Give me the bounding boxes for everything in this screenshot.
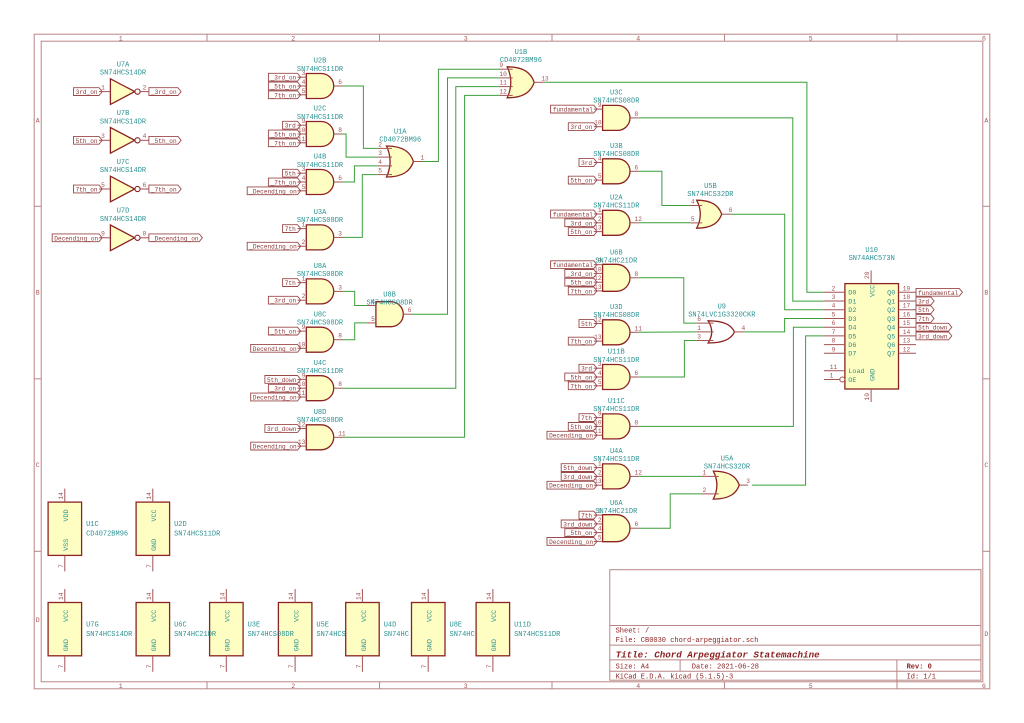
global label fundamental	[551, 261, 597, 269]
global label _5th_on	[268, 82, 300, 90]
U8C output pin 8	[334, 333, 343, 340]
svg-text:SN74HCS11DR: SN74HCS11DR	[593, 456, 640, 464]
svg-text:7th_on: 7th_on	[570, 383, 592, 390]
wire U1B out to U10 D0	[543, 82, 824, 292]
svg-text:U8D: U8D	[314, 409, 327, 417]
svg-text:20: 20	[864, 271, 871, 279]
svg-text:14: 14	[146, 492, 153, 500]
global label _5th_on	[565, 373, 597, 381]
svg-text:B: B	[36, 290, 40, 297]
U5B input pin 4	[690, 199, 702, 206]
U2B input pin 4	[298, 79, 307, 86]
U5A reference label	[721, 455, 734, 463]
svg-text:CD4072BM96: CD4072BM96	[379, 136, 421, 144]
svg-text:11: 11	[499, 80, 507, 87]
svg-text:16: 16	[903, 312, 911, 319]
U2B input pin 3	[298, 70, 307, 77]
svg-text:U9: U9	[718, 303, 726, 311]
svg-text:fundamental: fundamental	[553, 212, 594, 219]
U11B input pin 5	[594, 379, 603, 386]
svg-text:SN74HCS11DR: SN74HCS11DR	[297, 162, 344, 170]
wire U3B out to U5B pin4	[639, 171, 691, 205]
global label 5th_on	[568, 176, 597, 184]
svg-text:C: C	[984, 462, 988, 469]
svg-text:GND: GND	[869, 369, 877, 381]
wire U3C out to U10 D1	[639, 118, 824, 301]
svg-text:8: 8	[635, 111, 639, 118]
U7A input pin 1	[99, 84, 110, 91]
wire U3A out to U1A pin5	[343, 175, 378, 238]
U5B input pin 5	[690, 216, 702, 223]
svg-text:SN74HCS11DR: SN74HCS11DR	[593, 406, 640, 414]
svg-text:U3E: U3E	[248, 622, 261, 630]
svg-text:5: 5	[302, 184, 306, 191]
global label _5th_on	[149, 136, 181, 144]
U9 input pin 6	[697, 316, 714, 323]
U6B input pin 13	[594, 284, 603, 291]
svg-text:1: 1	[697, 325, 701, 332]
power unit U11D body	[476, 603, 510, 656]
U8D input pin 13	[298, 439, 307, 446]
svg-text:5: 5	[598, 534, 602, 541]
U9 value label SN74LVC1G3320CKR	[688, 311, 756, 319]
global label _3rd_on	[268, 296, 300, 304]
svg-text:SN74HCS08DR: SN74HCS08DR	[297, 217, 344, 225]
svg-text:11: 11	[594, 428, 602, 435]
svg-text:C: C	[36, 462, 40, 469]
U10 pin 1 OE (inverted)	[824, 373, 857, 386]
U4C input pin 9	[298, 372, 307, 379]
U2C input pin 11	[298, 136, 307, 143]
svg-text:5th_on: 5th_on	[570, 178, 592, 185]
svg-text:4: 4	[691, 199, 695, 206]
gate U4A body	[603, 464, 630, 489]
svg-text:D4: D4	[848, 325, 856, 333]
svg-text:U7A: U7A	[117, 62, 130, 70]
U6A value label SN74HC21DR	[595, 508, 638, 516]
U8B output pin 6	[403, 307, 412, 314]
svg-text:5th: 5th	[285, 171, 296, 178]
svg-text:Decending_on: Decending_on	[54, 235, 98, 242]
svg-text:VCC: VCC	[151, 509, 159, 521]
U4C value label SN74HCS11DR	[297, 368, 344, 376]
svg-text:CD4072BM96: CD4072BM96	[500, 57, 542, 65]
U1C reference label	[86, 521, 99, 529]
inverter U7D body	[110, 225, 140, 251]
svg-text:10: 10	[298, 341, 306, 348]
U2A output pin 12	[630, 216, 642, 223]
svg-text:3rd: 3rd	[581, 366, 592, 373]
svg-text:10: 10	[864, 393, 871, 401]
U1C power pin 7 VSS	[58, 539, 71, 572]
svg-text:Decending_on: Decending_on	[253, 346, 297, 353]
global label 7th_on	[568, 337, 597, 345]
svg-text:_7th_on: _7th_on	[270, 140, 297, 147]
global label 5th_down	[916, 323, 952, 331]
svg-text:1: 1	[119, 683, 123, 690]
title block	[610, 570, 981, 682]
latch U10 body	[845, 284, 899, 389]
U8E value label SN74HC	[450, 631, 475, 639]
svg-text:U8C: U8C	[314, 311, 327, 319]
svg-text:SN74HC21DR: SN74HC21DR	[174, 631, 217, 639]
svg-text:File: CB0030 chord-arpeggiator: File: CB0030 chord-arpeggiator.sch	[616, 637, 759, 645]
svg-text:Decending_on: Decending_on	[253, 395, 297, 402]
U8A input pin 1	[298, 276, 307, 283]
U3E power pin 7 GND	[219, 639, 232, 672]
wire U8B out to U1B pin10	[412, 78, 499, 314]
U9 input pin 3	[697, 334, 714, 341]
svg-text:3: 3	[832, 294, 836, 301]
U9 reference label	[718, 303, 726, 311]
svg-text:Size: A4: Size: A4	[616, 663, 650, 671]
U2D reference label	[174, 521, 187, 529]
global label _7th_on	[149, 185, 181, 193]
svg-text:D: D	[984, 631, 988, 638]
U1A input pin 2	[378, 141, 392, 148]
U4A value label SN74HCS11DR	[593, 456, 640, 464]
U1A input pin 5	[378, 168, 392, 175]
U3B input pin 4	[594, 156, 603, 163]
svg-text:SN74HC21DR: SN74HC21DR	[595, 508, 638, 516]
svg-text:13: 13	[594, 478, 602, 485]
global label 7th	[283, 279, 301, 287]
global label _7th_on	[268, 91, 300, 99]
svg-text:SN74HCS14DR: SN74HCS14DR	[100, 216, 147, 224]
U10 pin 9 D7	[824, 346, 857, 358]
U4A input pin 13	[594, 478, 603, 485]
svg-text:4: 4	[832, 303, 836, 310]
U5B reference label	[704, 183, 717, 191]
svg-text:VCC: VCC	[63, 610, 71, 622]
U4D reference label	[384, 622, 397, 630]
svg-text:14: 14	[355, 592, 362, 600]
global label 3rd_down	[561, 520, 597, 528]
global label _7th_on	[268, 139, 300, 147]
gate U8B body	[376, 302, 403, 327]
svg-text:2: 2	[302, 293, 306, 300]
svg-text:_Decending_on: _Decending_on	[248, 188, 297, 195]
svg-text:7: 7	[58, 664, 65, 668]
U6A input pin 5	[594, 534, 603, 541]
U11C input pin 11	[594, 428, 603, 435]
U8A value label SN74HCS08DR	[297, 271, 344, 279]
svg-text:18: 18	[903, 294, 911, 301]
U8D input pin 12	[298, 422, 307, 429]
svg-text:8: 8	[143, 231, 147, 238]
svg-text:GND: GND	[491, 639, 499, 651]
U5A input pin 2	[702, 487, 719, 494]
U1A output pin 1	[414, 155, 425, 162]
svg-text:Q4: Q4	[887, 325, 895, 333]
U8D reference label	[314, 409, 327, 417]
U8C reference label	[314, 311, 327, 319]
svg-text:U11C: U11C	[608, 398, 625, 406]
svg-text:U1B: U1B	[515, 49, 528, 57]
global label 5th_on	[568, 228, 597, 236]
svg-text:SN74HCS11DR: SN74HCS11DR	[297, 114, 344, 122]
svg-text:U2A: U2A	[610, 195, 623, 203]
svg-text:8: 8	[635, 419, 639, 426]
svg-text:_3rd_on: _3rd_on	[566, 271, 593, 278]
wire U4A out to U5A pin1	[639, 475, 702, 477]
U7C value label SN74HCS14DR	[100, 167, 147, 175]
gate U11C body	[603, 414, 630, 439]
svg-text:_5th_on: _5th_on	[270, 132, 297, 139]
power unit U8E body	[412, 603, 446, 656]
svg-text:KiCad E.D.A. kicad (5.1.5)-3: KiCad E.D.A. kicad (5.1.5)-3	[616, 674, 734, 682]
svg-text:6: 6	[635, 370, 639, 377]
power unit U4D body	[346, 603, 380, 656]
svg-text:U6B: U6B	[610, 250, 623, 258]
global label 7th_on	[74, 185, 103, 193]
svg-text:U3C: U3C	[610, 90, 623, 98]
svg-text:12: 12	[635, 216, 643, 223]
U7G reference label	[86, 622, 99, 630]
power unit U1C body	[48, 502, 82, 555]
svg-text:SN74HC21DR: SN74HC21DR	[595, 258, 638, 266]
svg-text:SN74HCS32DR: SN74HCS32DR	[704, 464, 751, 472]
svg-text:GND: GND	[63, 639, 71, 651]
svg-text:U6A: U6A	[610, 500, 623, 508]
svg-text:14: 14	[903, 329, 911, 336]
svg-text:5th_down: 5th_down	[563, 465, 593, 472]
svg-text:5th_down: 5th_down	[918, 325, 948, 332]
svg-text:U5A: U5A	[721, 455, 734, 463]
svg-text:7: 7	[486, 664, 493, 668]
U8C input pin 10	[298, 341, 307, 348]
wire U8A out to U8B pin4	[343, 291, 368, 305]
global label 5th_down	[265, 376, 301, 384]
svg-text:SN74HCS08DR: SN74HCS08DR	[593, 151, 640, 159]
U7C input pin 5	[99, 182, 110, 189]
U4C output pin 8	[334, 381, 343, 388]
svg-text:2: 2	[291, 36, 295, 43]
U5A output pin 3	[739, 478, 750, 485]
U4B input pin 4	[298, 175, 307, 182]
U10 value label SN74AHC573N	[849, 255, 895, 263]
svg-text:6: 6	[982, 36, 986, 43]
power unit U2D body	[136, 502, 170, 555]
svg-text:8: 8	[338, 333, 342, 340]
U3E value label SN74HCS08DR	[248, 631, 295, 639]
svg-text:_5th_on: _5th_on	[270, 84, 297, 91]
U5E reference label	[316, 622, 329, 630]
svg-text:5: 5	[371, 316, 375, 323]
wire U11B out to U9 pin3	[639, 341, 697, 378]
svg-text:8: 8	[338, 127, 342, 134]
U7A reference label	[117, 62, 130, 70]
U11D power pin 14 VCC	[486, 589, 499, 622]
gate U9 body	[708, 321, 734, 343]
global label 3rd_on	[74, 88, 103, 96]
svg-text:SN74HCS32DR: SN74HCS32DR	[687, 191, 734, 199]
U10 pin 13 Q6	[887, 338, 916, 350]
U4B value label SN74HCS11DR	[297, 162, 344, 170]
svg-text:U6C: U6C	[174, 622, 187, 630]
U4C input pin 10	[298, 381, 307, 388]
svg-text:3: 3	[338, 284, 342, 291]
gate U6A body	[603, 515, 630, 542]
svg-text:_5th_on: _5th_on	[566, 375, 593, 382]
U7G power pin 7 GND	[58, 639, 71, 672]
svg-text:1: 1	[830, 373, 834, 380]
svg-text:3: 3	[746, 478, 750, 485]
svg-text:4: 4	[636, 683, 640, 690]
U3D input pin 12	[594, 317, 603, 324]
U2A reference label	[610, 195, 623, 203]
svg-text:3rd: 3rd	[918, 299, 929, 306]
svg-text:_3rd_on: _3rd_on	[270, 386, 297, 393]
svg-text:5th_down: 5th_down	[267, 377, 297, 384]
svg-text:6: 6	[635, 164, 639, 171]
U7D value label SN74HCS14DR	[100, 216, 147, 224]
svg-text:_Decending_on: _Decending_on	[248, 244, 297, 251]
global label _5th_on	[268, 130, 300, 138]
svg-text:SN74AHC573N: SN74AHC573N	[849, 255, 895, 263]
U10 pin 6 D4	[824, 320, 857, 332]
svg-text:14: 14	[219, 592, 226, 600]
svg-text:13: 13	[594, 334, 602, 341]
U3B input pin 5	[594, 173, 603, 180]
global label 7th_on	[568, 287, 597, 295]
svg-text:6: 6	[338, 175, 342, 182]
U4A output pin 12	[630, 469, 642, 476]
svg-text:U2C: U2C	[314, 106, 327, 114]
U1B output pin 13	[534, 75, 549, 82]
svg-text:fundamental: fundamental	[553, 107, 594, 114]
U7G power pin 14 VCC	[58, 589, 71, 622]
U4B input pin 5	[298, 184, 307, 191]
svg-text:1: 1	[421, 155, 425, 162]
global label Decending_on	[251, 442, 301, 450]
inverter U7A body	[110, 79, 140, 105]
U3A reference label	[314, 209, 327, 217]
svg-text:2: 2	[598, 469, 602, 476]
svg-text:4: 4	[302, 79, 306, 86]
svg-text:U7C: U7C	[117, 159, 130, 167]
U6B value label SN74HC21DR	[595, 258, 638, 266]
svg-text:U7G: U7G	[86, 622, 99, 630]
U3C value label SN74HCS08DR	[593, 98, 640, 106]
U8E reference label	[450, 622, 463, 630]
U1A value label CD4072BM96	[379, 136, 421, 144]
svg-text:12: 12	[903, 346, 911, 353]
U5A input pin 1	[702, 469, 719, 476]
global label _7th_on	[268, 178, 300, 186]
svg-text:_3rd_on: _3rd_on	[270, 75, 297, 82]
U1A input pin 4	[378, 159, 392, 166]
global label 3rd_down	[561, 473, 597, 481]
U2D power pin 7 GND	[146, 539, 159, 572]
svg-text:D3: D3	[848, 316, 856, 324]
global label Decending_on	[547, 481, 597, 489]
gate U8D body	[306, 425, 333, 450]
U5A value label SN74HCS32DR	[704, 464, 751, 472]
U11D value label SN74HCS11DR	[514, 631, 561, 639]
U6C reference label	[174, 622, 187, 630]
svg-text:14: 14	[288, 592, 295, 600]
U10 pin 19 Q0	[887, 285, 916, 297]
svg-text:U2D: U2D	[174, 521, 187, 529]
svg-text:13: 13	[903, 338, 911, 345]
U5E value label SN74HCS	[316, 631, 345, 639]
U6C power pin 7 GND	[146, 639, 159, 672]
svg-text:3rd_down: 3rd_down	[918, 333, 948, 340]
U8D output pin 11	[334, 430, 346, 437]
gate U2C body	[306, 122, 333, 147]
U8C input pin 9	[298, 324, 307, 331]
U6A output pin 6	[630, 521, 639, 528]
svg-text:3rd: 3rd	[581, 160, 592, 167]
wire U11C out to U10 D4	[639, 327, 824, 426]
svg-text:_3rd_on: _3rd_on	[270, 298, 297, 305]
global label _3rd_on	[268, 384, 300, 392]
gate U4C body	[306, 376, 333, 401]
U2C value label SN74HCS11DR	[297, 114, 344, 122]
global label 3rd	[579, 159, 597, 167]
wire U8D out to U1B pin12	[343, 95, 499, 437]
global label 7th	[283, 225, 301, 233]
global label 3rd	[579, 364, 597, 372]
svg-text:VCC: VCC	[151, 610, 159, 622]
svg-text:3: 3	[464, 683, 468, 690]
global label 5th	[283, 169, 301, 177]
svg-text:6: 6	[982, 683, 986, 690]
svg-text:GND: GND	[293, 639, 301, 651]
U7G value label SN74HCS14DR	[86, 631, 133, 639]
svg-text:U2B: U2B	[314, 58, 327, 66]
power unit U7G body	[48, 603, 82, 656]
U2B output pin 6	[334, 79, 343, 86]
svg-text:GND: GND	[225, 639, 233, 651]
wire U6A out to U5A pin2	[639, 494, 702, 528]
U3C reference label	[610, 90, 623, 98]
U4C input pin 11	[298, 390, 307, 397]
svg-text:SN74HCS08DR: SN74HCS08DR	[593, 98, 640, 106]
svg-text:_5th_on: _5th_on	[150, 138, 177, 145]
U5E power pin 7 GND	[288, 639, 301, 672]
U11B input pin 3	[594, 361, 603, 368]
U10 pin 8 D6	[824, 338, 857, 350]
svg-text:_5th_on: _5th_on	[566, 280, 593, 287]
U4C reference label	[314, 360, 327, 368]
global label _Decending_on	[247, 242, 301, 250]
svg-text:U7B: U7B	[117, 110, 130, 118]
svg-text:3: 3	[697, 334, 701, 341]
svg-text:10: 10	[298, 381, 306, 388]
svg-text:Title: Chord Arpeggiator State: Title: Chord Arpeggiator Statemachine	[616, 649, 820, 660]
wire U3D out to U9 pin1	[639, 331, 697, 333]
U7D reference label	[117, 208, 130, 216]
svg-text:5: 5	[809, 36, 813, 43]
U8D value label SN74HCS08DR	[297, 417, 344, 425]
svg-text:Rev: 0: Rev: 0	[907, 663, 932, 671]
svg-text:Q0: Q0	[887, 290, 895, 298]
svg-text:VCC: VCC	[491, 610, 499, 622]
U10 pin 3 D1	[824, 294, 857, 306]
U5B output pin 6	[722, 207, 733, 214]
global label _5th_on	[565, 278, 597, 286]
U8E power pin 7 GND	[421, 639, 434, 672]
U3C output pin 8	[630, 111, 639, 118]
gate U2A body	[603, 210, 630, 235]
wire U8C out to U8B pin5	[343, 323, 368, 340]
svg-text:7: 7	[832, 329, 836, 336]
U6A reference label	[610, 500, 623, 508]
svg-text:D2: D2	[848, 307, 856, 315]
U4D power pin 14 VCC	[355, 589, 368, 622]
